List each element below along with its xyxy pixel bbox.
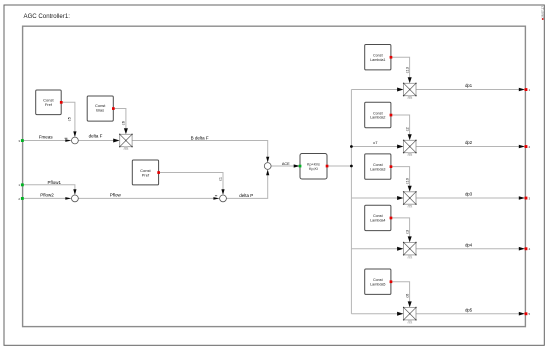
port Pflow2 (input 2)	[21, 197, 24, 200]
wire Pref to sum3	[159, 173, 223, 190]
timestamp rotated top-right	[541, 6, 545, 20]
arrow into multB top	[124, 128, 128, 134]
svg-text:c13: c13	[405, 67, 409, 73]
port dp1 (output 1)	[525, 88, 528, 91]
svg-text:1: 1	[18, 183, 20, 187]
arrow dp1 to border	[519, 88, 525, 92]
arrow dp2 to border	[519, 145, 525, 149]
sum S1 (Fref - Fmeas)	[72, 137, 79, 144]
svg-text:c3: c3	[405, 230, 409, 234]
arrow dp3 to border	[519, 196, 525, 200]
wire Fref to sum1	[61, 102, 75, 132]
wire Bias to multB	[113, 109, 126, 130]
arrow into sum3 left	[213, 197, 219, 200]
svg-text:Pref: Pref	[142, 172, 150, 177]
arrow dp5 to border	[519, 312, 525, 316]
arrow into sum1 left	[65, 139, 71, 142]
wire B delta F multB to sumACE	[132, 141, 268, 158]
svg-text:Lambda3: Lambda3	[370, 167, 385, 171]
svg-text:dp2: dp2	[465, 140, 473, 145]
svg-text:delta P: delta P	[239, 193, 253, 198]
arrow into sum2 left	[65, 197, 71, 200]
wire delta P sum3 to sumACE	[226, 175, 267, 199]
arrow dp4 to border	[519, 247, 525, 251]
arrow into multB left	[113, 139, 119, 143]
svg-text:2: 2	[529, 145, 531, 149]
arrow into sumACE top	[266, 157, 269, 163]
svg-text:Fref: Fref	[45, 102, 53, 107]
arrow into sum3 top	[221, 189, 224, 195]
svg-text:Lambda5: Lambda5	[370, 282, 385, 286]
wire Pflow sum2 to sum3	[78, 197, 214, 199]
block Const Fref	[36, 90, 63, 115]
wire delta F sum1 to multB	[78, 140, 114, 142]
mult M2	[403, 140, 417, 155]
arrow into mult3 left	[397, 196, 403, 200]
wire PI out to bus	[327, 165, 351, 167]
wire Pflow1 to sum2	[23, 185, 75, 190]
svg-text:dp3: dp3	[465, 192, 473, 197]
wire Pflow2 to sum2	[23, 197, 66, 199]
arrow into mult1 top	[408, 77, 412, 83]
mult M4	[403, 242, 417, 257]
arrow into mult2 top	[408, 134, 412, 140]
wire Lambda5 to mult5	[391, 282, 410, 302]
wire bus vertical	[350, 90, 352, 314]
block Const Bias	[87, 96, 115, 121]
arrow into PI block	[294, 164, 300, 167]
wire dp4 out	[416, 248, 519, 250]
junction bus PI out	[350, 165, 353, 168]
svg-text:Const: Const	[373, 278, 383, 282]
svg-text:c1: c1	[219, 177, 223, 181]
arrow into mult1 left	[397, 88, 403, 92]
svg-text:Const: Const	[373, 163, 383, 167]
arrow into sum1 top	[73, 131, 76, 137]
arrow into mult5 left	[397, 312, 403, 316]
wire Lambda3 to mult3	[391, 167, 410, 187]
junction bus branch2	[350, 145, 353, 148]
svg-text:3: 3	[529, 197, 531, 201]
svg-text:mult: mult	[123, 147, 128, 151]
svg-text:2: 2	[18, 197, 20, 201]
svg-text:c2: c2	[405, 127, 409, 131]
block Const Lambda4	[365, 205, 393, 230]
port dp5 (output 5)	[525, 312, 528, 315]
svg-text:Pflow1: Pflow1	[47, 180, 61, 185]
block Const Lambda2	[365, 102, 393, 127]
svg-text:Bias: Bias	[96, 107, 104, 112]
svg-text:Const: Const	[373, 54, 383, 58]
svg-text:Lambda2: Lambda2	[370, 116, 385, 120]
mult M1	[403, 83, 417, 98]
svg-text:dp5: dp5	[465, 307, 473, 312]
svg-text:Kp,Ki: Kp,Ki	[309, 167, 318, 171]
arrow into mult5 top	[408, 301, 412, 307]
wire branch3 in	[351, 197, 398, 199]
mult M3	[403, 191, 417, 206]
block Const Lambda5	[365, 269, 393, 294]
sum S2 (Pflow1 + Pflow2)	[72, 195, 79, 202]
svg-text:c10: c10	[405, 178, 409, 184]
wire branch4 in	[351, 248, 398, 250]
svg-text:28.07.17: 28.07.17	[541, 6, 545, 18]
port Fmeas (input 3)	[21, 139, 24, 142]
block Const Lambda3	[365, 154, 393, 179]
arrow into mult4 top	[408, 236, 412, 242]
wire branch5 in	[351, 313, 398, 315]
svg-text:Lambda4: Lambda4	[370, 219, 385, 223]
svg-text:mult: mult	[407, 153, 412, 157]
svg-text:delta F: delta F	[89, 134, 103, 139]
svg-text:mult: mult	[407, 205, 412, 209]
port dp2 (output 2)	[525, 145, 528, 148]
port Pflow1 (input 1)	[21, 183, 24, 186]
wire Fmeas	[23, 140, 66, 142]
wire ACE sumACE to PI block	[271, 165, 294, 167]
block PI controller Kp+Ki/s	[299, 154, 329, 180]
svg-text:Const: Const	[373, 214, 383, 218]
svg-text:c6: c6	[122, 121, 126, 125]
wire Lambda1 to mult1	[391, 57, 410, 78]
minus sign at sum1	[65, 137, 68, 139]
svg-text:ACE: ACE	[282, 162, 290, 166]
svg-text:Fmeas: Fmeas	[39, 134, 54, 139]
svg-text:Pflow2: Pflow2	[40, 192, 54, 197]
svg-text:mult: mult	[407, 96, 412, 100]
wire dp2 out	[416, 146, 519, 148]
svg-text:mult: mult	[407, 255, 412, 259]
svg-text:c5: c5	[68, 117, 72, 121]
port dp3 (output 3)	[525, 197, 528, 200]
mult B (bias multiplier)	[119, 134, 133, 149]
svg-text:dp4: dp4	[465, 242, 473, 247]
block Const Lambda1	[365, 45, 393, 70]
wire Lambda2 to mult2	[391, 115, 410, 135]
sum S4 ACE	[264, 163, 271, 170]
wire dp1 out	[416, 89, 519, 91]
arrow into mult4 left	[397, 247, 403, 251]
svg-text:c7: c7	[373, 140, 378, 145]
svg-text:3: 3	[18, 139, 20, 143]
wire dp3 out	[416, 197, 519, 199]
arrow into sum2 top	[73, 189, 76, 195]
wire dp5 out	[416, 313, 519, 315]
sum S3 (Pref - Pflow)	[220, 195, 227, 202]
svg-text:AGC Controller1:: AGC Controller1:	[24, 13, 71, 20]
svg-text:c6: c6	[405, 294, 409, 298]
diagram frame	[23, 26, 526, 326]
svg-text:mult: mult	[407, 320, 412, 324]
mult M5	[403, 307, 417, 322]
svg-text:5: 5	[529, 312, 531, 316]
minus sign at sum3	[215, 195, 217, 197]
svg-text:4: 4	[529, 247, 531, 251]
arrow into sumACE bottom	[266, 169, 269, 175]
wire branch1 in	[351, 89, 398, 91]
svg-text:1: 1	[529, 88, 531, 92]
port dp4 (output 4)	[525, 247, 528, 250]
svg-text:Const: Const	[373, 111, 383, 115]
block Const Pref	[132, 160, 160, 185]
svg-text:Lambda1: Lambda1	[370, 58, 385, 62]
wire Lambda4 to mult4	[391, 218, 410, 237]
svg-text:dp1: dp1	[465, 83, 473, 88]
arrow into mult2 left	[397, 145, 403, 149]
svg-text:Pflow: Pflow	[110, 192, 122, 197]
svg-text:B delta F: B delta F	[191, 135, 209, 140]
arrow into mult3 top	[408, 186, 412, 192]
wire branch2 in c7	[351, 146, 398, 148]
